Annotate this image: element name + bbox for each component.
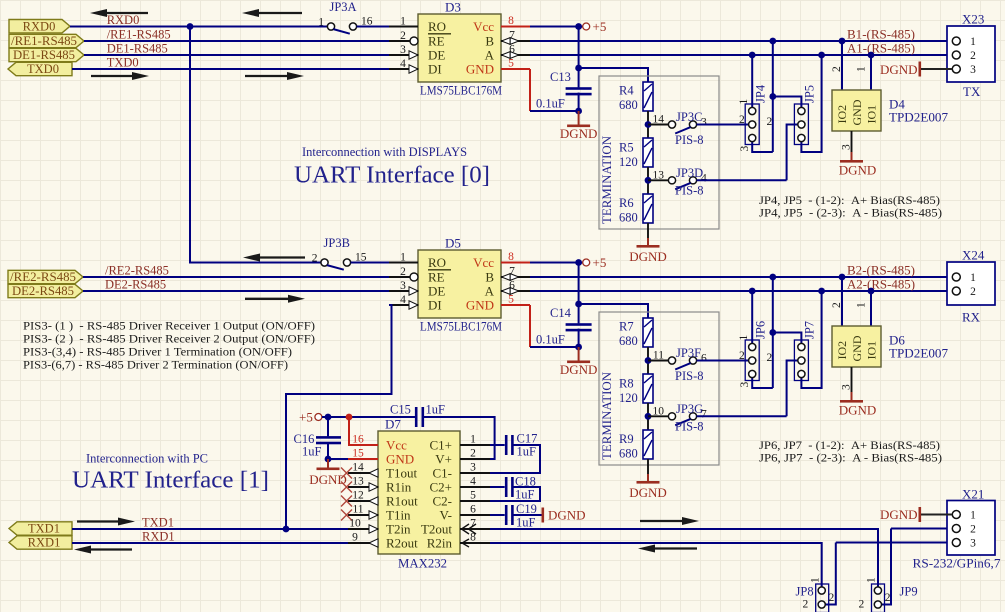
svg-text:T1out: T1out xyxy=(386,466,417,481)
svg-text:6: 6 xyxy=(470,504,476,516)
D5 pin 3 DE xyxy=(389,290,418,292)
svg-text:A: A xyxy=(485,48,495,63)
D7 T2out arrow glyph xyxy=(462,524,470,534)
svg-text:PIS3- (2 ) - RS-485 Driver Re: PIS3- (2 ) - RS-485 Driver Receiver 2 Ou… xyxy=(23,332,315,346)
svg-text:JP4: JP4 xyxy=(754,84,768,103)
arrow left (to JP3B) xyxy=(258,256,305,258)
svg-text:C19: C19 xyxy=(516,502,537,516)
svg-text:GND: GND xyxy=(850,335,864,361)
svg-text:1: 1 xyxy=(810,577,822,583)
svg-text:5: 5 xyxy=(508,58,514,70)
junction RXD0 / riser to JP3B xyxy=(187,23,194,30)
svg-text:4: 4 xyxy=(470,476,476,488)
wire riser RXD0 to JP3B xyxy=(190,27,328,263)
svg-text:JP9: JP9 xyxy=(900,585,918,599)
ground DGND (C19) xyxy=(542,508,586,523)
jumper header JP7 xyxy=(794,340,808,381)
svg-text:120: 120 xyxy=(619,155,638,169)
ground DGND (D4) xyxy=(839,152,877,178)
junction TXD1 / T2in / DI xyxy=(283,526,290,533)
D5 pin 7 B xyxy=(501,276,531,278)
svg-text:RE: RE xyxy=(428,34,445,49)
svg-text:RS-232/GPin6,7: RS-232/GPin6,7 xyxy=(913,556,1002,571)
RS-485 transceiver D5 xyxy=(418,250,501,318)
svg-text:1uF: 1uF xyxy=(515,488,535,502)
svg-text:T2in: T2in xyxy=(386,522,411,537)
svg-text:DGND: DGND xyxy=(839,403,877,418)
svg-text:JP4, JP5 - (2-3): A - Bias(R: JP4, JP5 - (2-3): A - Bias(RS-485) xyxy=(759,206,942,220)
arrow left (RXD1) xyxy=(89,548,132,550)
svg-text:1: 1 xyxy=(970,272,976,284)
capacitor C17 1uF xyxy=(490,444,505,446)
port flag TXD0 xyxy=(8,62,72,75)
svg-text:R6: R6 xyxy=(619,196,634,210)
svg-text:2: 2 xyxy=(803,599,809,611)
wire C13 to ground xyxy=(578,93,580,111)
svg-text:4: 4 xyxy=(400,294,406,306)
junction +5 xyxy=(575,23,582,30)
svg-text:2: 2 xyxy=(970,50,976,62)
svg-text:JP3D: JP3D xyxy=(676,166,703,180)
D3 pin 6 A xyxy=(501,54,531,56)
wire Vcc to +5 xyxy=(530,26,582,28)
svg-text:10: 10 xyxy=(349,518,361,530)
svg-text:3: 3 xyxy=(400,44,406,56)
ground DGND (termination) xyxy=(629,238,667,264)
junction node 10 xyxy=(645,413,652,420)
svg-text:RXD0: RXD0 xyxy=(107,13,140,27)
svg-text:2: 2 xyxy=(831,66,843,72)
svg-text:1: 1 xyxy=(856,66,868,72)
wire bias chain lower xyxy=(647,403,649,430)
svg-text:RO: RO xyxy=(428,19,446,34)
wire JP5 pin 2 drop xyxy=(787,125,798,181)
svg-text:JP3B: JP3B xyxy=(324,236,350,250)
svg-text:0.1uF: 0.1uF xyxy=(536,97,565,111)
wire JP8 to X21 pin 3 xyxy=(836,542,953,544)
D5 pin 4 DI xyxy=(389,304,418,306)
connector X21 xyxy=(947,501,995,556)
svg-text:2: 2 xyxy=(767,116,773,128)
svg-text:R2out: R2out xyxy=(386,536,418,551)
svg-text:+5: +5 xyxy=(593,19,607,34)
port flag RXD0 xyxy=(9,20,70,33)
wire JP5 pin 3 to A riser xyxy=(801,55,821,152)
ground DGND (D6) xyxy=(839,392,877,418)
D3 pin 5 GND xyxy=(501,68,530,70)
svg-text:R1in: R1in xyxy=(386,480,412,495)
wire DGND to X23 pin 3 xyxy=(921,68,952,70)
junction JP7 pin 1 branch xyxy=(769,329,776,336)
wire Vcc to +5 xyxy=(530,262,582,264)
svg-text:/RE2-RS485: /RE2-RS485 xyxy=(10,270,76,284)
wire JP3D to JP5 pin 2 xyxy=(697,179,787,181)
capacitor C19 1uF xyxy=(490,514,505,516)
svg-text:A: A xyxy=(485,284,495,299)
ground DGND (decoupling) xyxy=(560,347,598,377)
svg-text:DE2-RS485: DE2-RS485 xyxy=(105,278,166,292)
TVS diode D4 TPD2E007 xyxy=(832,90,881,131)
wire C15 to V+ xyxy=(422,417,495,459)
arrow right (DE2) xyxy=(245,298,290,300)
svg-text:DGND: DGND xyxy=(629,249,667,264)
svg-text:DGND: DGND xyxy=(309,472,347,487)
svg-text:6: 6 xyxy=(509,44,515,56)
svg-text:UART Interface [0]: UART Interface [0] xyxy=(294,162,490,189)
jumper switch JP3F xyxy=(648,360,668,362)
D7 pin 4 C2+ xyxy=(460,486,490,488)
resistor R9 680 xyxy=(643,430,653,459)
svg-text:1: 1 xyxy=(970,510,976,522)
wire termination to ground xyxy=(647,459,649,474)
D3 pin 3 DE xyxy=(389,54,418,56)
svg-text:1: 1 xyxy=(400,252,406,264)
svg-text:7: 7 xyxy=(509,266,515,278)
svg-text:D7: D7 xyxy=(385,417,401,432)
svg-text:8: 8 xyxy=(508,251,514,263)
resistor R8 120 xyxy=(643,374,653,403)
svg-text:C13: C13 xyxy=(550,70,571,84)
svg-text:D5: D5 xyxy=(445,236,461,251)
D7 pin 9 R2out xyxy=(348,542,378,544)
wire C14 to ground xyxy=(578,329,580,347)
svg-text:5: 5 xyxy=(470,490,476,502)
svg-text:X21: X21 xyxy=(962,487,984,502)
junction A / JP7 pin 3 xyxy=(818,288,825,295)
wire A to X24 xyxy=(530,290,952,292)
wire /RE2-RS485 xyxy=(83,276,389,278)
svg-text:4: 4 xyxy=(400,58,406,70)
D3 pin 7 B xyxy=(501,40,531,42)
svg-text:2: 2 xyxy=(739,350,745,362)
svg-text:3: 3 xyxy=(970,64,976,76)
svg-text:DI: DI xyxy=(428,62,442,77)
svg-text:LMS75LBC176M: LMS75LBC176M xyxy=(420,83,502,98)
svg-text:12: 12 xyxy=(352,490,364,502)
svg-text:TXD0: TXD0 xyxy=(27,62,59,76)
wire JP4 pin 3 to B riser xyxy=(752,142,773,153)
svg-text:Interconnection with PC: Interconnection with PC xyxy=(86,452,208,466)
svg-text:3: 3 xyxy=(841,384,853,390)
port flag DE2-RS485 xyxy=(8,284,83,297)
svg-text:V+: V+ xyxy=(435,452,452,467)
wire A to JP4 pin 1 xyxy=(751,55,753,108)
jumper header JP6 xyxy=(745,340,759,381)
svg-text:RE: RE xyxy=(428,270,445,285)
svg-text:LMS75LBC176M: LMS75LBC176M xyxy=(420,319,502,334)
wire DE2-RS485 xyxy=(83,290,389,292)
junction node 14 xyxy=(645,121,652,128)
svg-text:RX: RX xyxy=(962,310,981,325)
resistor R6 680 xyxy=(643,194,653,223)
svg-text:2: 2 xyxy=(400,266,406,278)
termination block box xyxy=(599,76,719,229)
port flag DE1-RS485 xyxy=(9,48,84,61)
svg-text:11: 11 xyxy=(352,504,363,516)
wire TXD0 xyxy=(72,68,389,70)
junction B / D4 xyxy=(839,38,846,45)
resistor R4 680 xyxy=(643,82,653,111)
svg-text:2: 2 xyxy=(739,114,745,126)
svg-text:DE1-RS485: DE1-RS485 xyxy=(13,48,75,62)
wire C17 to C1- xyxy=(490,445,540,473)
svg-text:TPD2E007: TPD2E007 xyxy=(889,346,949,361)
RS-232 driver D7 MAX232 xyxy=(378,431,460,554)
svg-text:JP3F: JP3F xyxy=(676,346,701,360)
svg-text:DE: DE xyxy=(428,284,445,299)
svg-text:1uF: 1uF xyxy=(426,403,446,417)
svg-text:GND: GND xyxy=(466,298,494,313)
svg-text:/RE1-RS485: /RE1-RS485 xyxy=(107,28,171,42)
svg-text:TERMINATION: TERMINATION xyxy=(599,135,614,224)
TVS diode D6 TPD2E007 xyxy=(832,326,881,367)
svg-text:1: 1 xyxy=(738,335,750,341)
junction +5 / bias feed xyxy=(575,65,582,72)
junction B / D6 xyxy=(839,274,846,281)
svg-text:PIS3-(6,7) - RS-485 Driver 2 T: PIS3-(6,7) - RS-485 Driver 2 Termination… xyxy=(23,358,288,372)
svg-text:B1-(RS-485): B1-(RS-485) xyxy=(847,27,915,41)
svg-text:TXD0: TXD0 xyxy=(107,56,139,70)
svg-text:TPD2E007: TPD2E007 xyxy=(889,110,949,125)
D7 pin 5 C2- xyxy=(460,500,490,502)
wire JP6 pin 3 to B riser xyxy=(752,378,773,389)
svg-text:1: 1 xyxy=(470,434,476,446)
svg-text:TERMINATION: TERMINATION xyxy=(599,371,614,460)
jumper header JP4 xyxy=(745,104,759,145)
svg-text:8: 8 xyxy=(508,15,514,27)
svg-text:JP5: JP5 xyxy=(803,85,817,103)
svg-text:MAX232: MAX232 xyxy=(398,556,447,571)
svg-text:2: 2 xyxy=(767,352,773,364)
arrow right (TXD0 direction) xyxy=(91,75,134,77)
resistor R5 120 xyxy=(643,138,653,167)
wire JP3G to JP7 pin 2 xyxy=(697,415,787,417)
svg-text:680: 680 xyxy=(619,98,638,112)
svg-text:2: 2 xyxy=(831,302,843,308)
arrow left (R2in) xyxy=(653,547,697,549)
wire JP7 pin 3 to A riser xyxy=(801,291,821,388)
svg-text:PIS-8: PIS-8 xyxy=(675,133,703,147)
D7 pin 6 V- xyxy=(460,514,490,516)
D5 pin 6 A xyxy=(501,290,531,292)
svg-text:3: 3 xyxy=(970,538,976,550)
svg-text:9: 9 xyxy=(352,532,358,544)
svg-text:7: 7 xyxy=(509,30,515,42)
D7 pin 10 T2in xyxy=(348,528,378,530)
svg-text:PIS-8: PIS-8 xyxy=(675,369,703,383)
wire to JP7 pin 1 xyxy=(773,333,802,344)
svg-text:2: 2 xyxy=(970,286,976,298)
D7 pin 11 T1in (no connect) xyxy=(348,514,378,516)
junction B riser xyxy=(769,274,776,281)
arrow left (RXD0 direction 2) xyxy=(257,12,302,14)
wire /RE1-RS485 xyxy=(84,40,389,42)
D7 pin 16 Vcc xyxy=(348,444,378,446)
D4 pin 3 xyxy=(851,131,853,152)
svg-text:6: 6 xyxy=(701,353,707,365)
svg-text:UART Interface [1]: UART Interface [1] xyxy=(72,467,269,494)
junction A / JP4 xyxy=(749,52,756,59)
svg-text:C1-: C1- xyxy=(433,466,453,481)
wire +5 to bias resistor xyxy=(579,68,648,82)
svg-text:Vcc: Vcc xyxy=(473,255,494,270)
port flag /RE2-RS485 xyxy=(8,270,83,283)
svg-text:C1+: C1+ xyxy=(429,438,452,453)
port flag /RE1-RS485 xyxy=(9,34,84,47)
capacitor C18 1uF xyxy=(490,486,505,488)
svg-text:/RE2-RS485: /RE2-RS485 xyxy=(105,264,169,278)
power port +5 xyxy=(583,23,590,30)
svg-text:IO2: IO2 xyxy=(835,105,849,124)
wire termination to ground xyxy=(647,223,649,238)
junction A / JP6 xyxy=(749,288,756,295)
junction +5 xyxy=(575,259,582,266)
svg-text:DE2-RS485: DE2-RS485 xyxy=(12,284,74,298)
svg-text:JP6: JP6 xyxy=(754,321,768,339)
svg-text:A1-(RS-485): A1-(RS-485) xyxy=(847,41,915,55)
svg-text:6: 6 xyxy=(509,280,515,292)
junction B riser xyxy=(769,38,776,45)
D3 pin 1 RO xyxy=(389,26,418,28)
wire +5 riser / decoupling xyxy=(578,263,580,324)
svg-text:3: 3 xyxy=(701,117,707,129)
svg-text:TX: TX xyxy=(963,84,981,99)
svg-text:B: B xyxy=(485,34,494,49)
svg-text:T2out: T2out xyxy=(421,522,452,537)
svg-text:C2+: C2+ xyxy=(429,480,452,495)
wire JP3F to JP6 pin 2 xyxy=(697,360,749,362)
svg-text:1uF: 1uF xyxy=(516,516,536,530)
junction A / D4 xyxy=(868,52,875,59)
wire +5 to Vcc pin 16 xyxy=(348,417,350,445)
D7 pin 7 T2out xyxy=(460,528,490,530)
wire RXD1 xyxy=(72,542,348,544)
jumper switch JP3A xyxy=(327,23,356,34)
svg-text:DE1-RS485: DE1-RS485 xyxy=(107,42,168,56)
wire JP3C to JP4 pin 2 xyxy=(697,124,749,126)
svg-text:RXD0: RXD0 xyxy=(23,20,56,34)
RS-485 transceiver D3 xyxy=(418,14,501,82)
ground DGND (MAX232) xyxy=(309,459,347,487)
svg-text:3: 3 xyxy=(470,462,476,474)
wire B riser JP4-3 / JP5-1 xyxy=(772,41,774,152)
svg-text:TXD1: TXD1 xyxy=(28,522,60,536)
D3 pin 4 DI xyxy=(389,68,418,70)
svg-text:1: 1 xyxy=(738,99,750,105)
D7 pin 15 GND xyxy=(348,458,378,460)
svg-text:DGND: DGND xyxy=(560,362,598,377)
wire A to D4 pin 1 xyxy=(870,55,872,90)
wire C16 to GND pin 15 xyxy=(328,442,348,459)
arrow left (RXD0 direction) xyxy=(105,12,148,14)
arrow right (TXD0 direction 2) xyxy=(245,75,289,77)
D7 pin 14 T1out (no connect) xyxy=(348,472,378,474)
svg-text:680: 680 xyxy=(619,447,638,461)
svg-text:IO1: IO1 xyxy=(865,341,879,360)
svg-text:JP6, JP7 - (2-3): A - Bias(R: JP6, JP7 - (2-3): A - Bias(RS-485) xyxy=(759,451,942,465)
svg-text:+5: +5 xyxy=(299,410,313,425)
D7 pin 3 C1- xyxy=(460,472,490,474)
jumper header JP5 xyxy=(794,104,808,145)
connector X24 xyxy=(947,262,995,305)
svg-text:14: 14 xyxy=(352,462,364,474)
svg-text:C2-: C2- xyxy=(433,494,453,509)
svg-text:X23: X23 xyxy=(962,12,984,27)
svg-text:3: 3 xyxy=(400,280,406,292)
svg-text:3: 3 xyxy=(841,144,853,150)
svg-text:RO: RO xyxy=(428,255,446,270)
jumper switch JP3G xyxy=(648,415,668,417)
wire D5 GND xyxy=(529,305,531,347)
wire A to JP6 pin 1 xyxy=(751,291,753,344)
junction C13 ground xyxy=(575,108,582,115)
svg-text:3: 3 xyxy=(739,382,751,388)
junction +5 / Vcc xyxy=(346,414,353,421)
wire DGND to X21 pin 1 xyxy=(921,514,952,516)
wire +5 rail xyxy=(322,416,415,418)
wire DE1-RS485 xyxy=(84,54,389,56)
junction +5 / bias feed xyxy=(575,301,582,308)
junction A / JP5 pin 3 xyxy=(818,52,825,59)
jumper JP9 xyxy=(872,584,885,612)
svg-text:R1out: R1out xyxy=(386,494,418,509)
svg-text:TXD1: TXD1 xyxy=(142,516,174,530)
capacitor C15 1uF xyxy=(415,407,424,427)
D3 pin 8 Vcc xyxy=(501,26,530,28)
svg-text:DGND: DGND xyxy=(629,485,667,500)
svg-text:5: 5 xyxy=(508,294,514,306)
capacitor C14 0.1uF xyxy=(566,323,592,331)
svg-text:D3: D3 xyxy=(445,0,461,15)
svg-text:1: 1 xyxy=(970,36,976,48)
svg-text:0.1uF: 0.1uF xyxy=(536,333,565,347)
capacitor C16 1uF xyxy=(327,417,329,436)
svg-text:1: 1 xyxy=(318,16,324,28)
D5 pin 1 RO xyxy=(389,262,418,264)
svg-text:DGND: DGND xyxy=(548,508,586,523)
D5 pin 8 Vcc xyxy=(501,262,530,264)
svg-text:1uF: 1uF xyxy=(302,445,322,459)
svg-text:JP8: JP8 xyxy=(796,585,814,599)
wire bias chain lower xyxy=(647,167,649,194)
wire JP3A to pin 1 xyxy=(357,26,389,28)
junction GND / C16 / DGND xyxy=(325,456,332,463)
svg-text:2: 2 xyxy=(470,448,476,460)
svg-text:JP3G: JP3G xyxy=(676,402,703,416)
svg-text:GND: GND xyxy=(850,99,864,125)
wire B to X24 xyxy=(530,276,952,278)
svg-text:680: 680 xyxy=(619,211,638,225)
svg-text:DGND: DGND xyxy=(880,62,918,77)
svg-text:120: 120 xyxy=(619,391,638,405)
wire TXD1 xyxy=(72,528,348,530)
junction A / D6 xyxy=(868,288,875,295)
D7 R2in arrow glyph xyxy=(462,539,469,547)
port flag RXD1 xyxy=(9,536,72,549)
svg-text:DGND: DGND xyxy=(560,126,598,141)
junction +5 / C16 xyxy=(325,414,332,421)
svg-text:2: 2 xyxy=(859,599,865,611)
wire bias chain upper xyxy=(647,347,649,374)
wire T2out to JP9 xyxy=(490,529,878,587)
wire to JP5 pin 1 xyxy=(773,97,802,108)
arrow right (T2out) xyxy=(640,520,684,522)
svg-text:DGND: DGND xyxy=(880,507,918,522)
resistor R7 680 xyxy=(643,318,653,347)
wire +5 to bias resistor xyxy=(579,304,648,318)
wire C18 to C2- xyxy=(490,487,540,501)
power port +5 (MAX232) xyxy=(315,414,322,421)
